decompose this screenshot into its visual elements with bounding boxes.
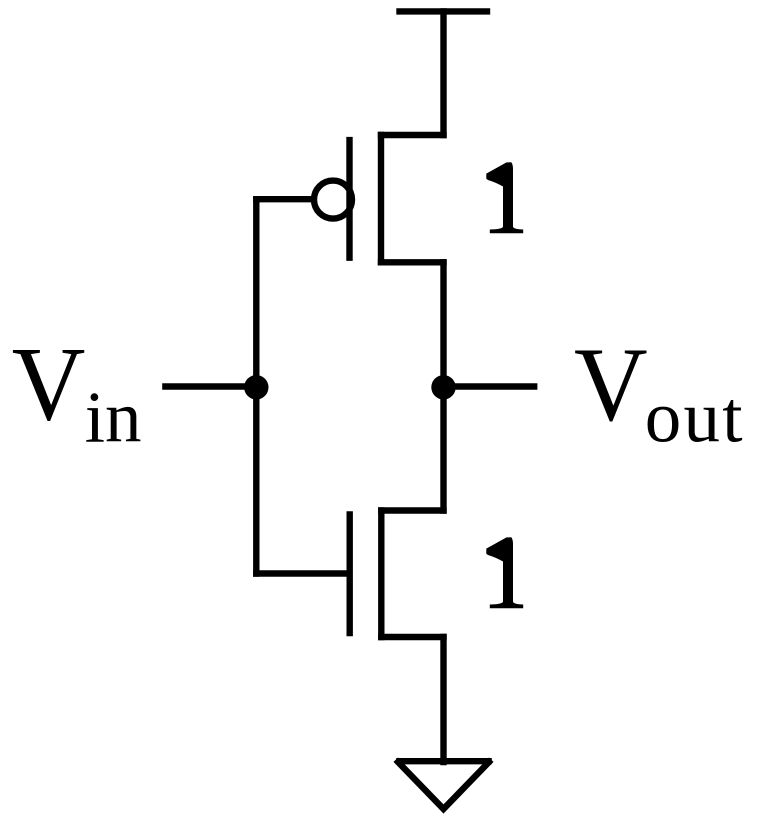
VDD supply rail — [396, 8, 490, 14]
wire output node vertical (PMOS drain to NMOS drain) — [440, 262, 446, 510]
wire NMOS gate lead — [256, 570, 346, 576]
wire ground stem — [440, 637, 446, 762]
label 1 (NMOS width) — [486, 537, 523, 608]
wire Vin — [165, 383, 256, 389]
wire PMOS gate lead — [256, 196, 312, 202]
transistor M1 (PMOS) gate bar — [346, 137, 352, 261]
node output junction dot — [431, 375, 455, 399]
label 1 (PMOS width) — [486, 162, 523, 233]
svg-text:V: V — [574, 327, 648, 443]
wire VDD stem to PMOS source — [440, 11, 446, 135]
transistor M1 (PMOS) source connection — [381, 132, 444, 138]
svg-text:in: in — [85, 377, 142, 458]
transistor M2 (NMOS) gate bar — [347, 511, 353, 636]
wire Vout — [444, 383, 535, 389]
ground symbol triangle — [398, 762, 489, 809]
transistor M2 (NMOS) drain connection — [381, 507, 443, 513]
transistor M1 (PMOS) drain connection — [381, 259, 444, 265]
svg-text:V: V — [12, 327, 86, 443]
ground symbol top bar — [399, 758, 488, 764]
transistor M1 (PMOS) gate bubble — [314, 181, 352, 219]
transistor M2 (NMOS) source connection — [381, 634, 443, 640]
svg-text:out: out — [645, 377, 745, 458]
wire input vertical — [253, 199, 259, 573]
node input junction dot — [244, 375, 268, 399]
transistor M1 (PMOS) channel bar — [378, 135, 384, 262]
transistor M2 (NMOS) channel bar — [378, 511, 384, 638]
